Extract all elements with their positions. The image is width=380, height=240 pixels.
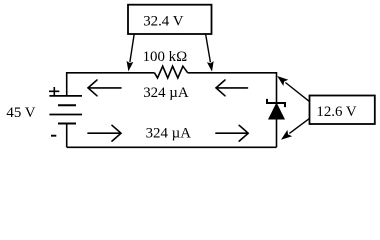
svg-text:324 µA: 324 µA xyxy=(143,85,189,101)
svg-text:100 kΩ: 100 kΩ xyxy=(143,49,188,65)
svg-text:12.6 V: 12.6 V xyxy=(316,104,357,120)
svg-text:324 µA: 324 µA xyxy=(146,126,192,142)
svg-text:32.4 V: 32.4 V xyxy=(143,14,184,30)
svg-text:45 V: 45 V xyxy=(6,105,35,121)
